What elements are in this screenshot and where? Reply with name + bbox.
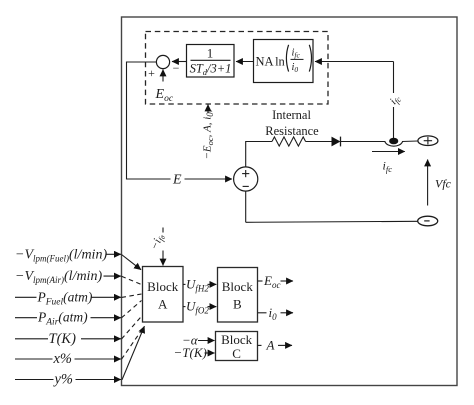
wire: y input left segment [15, 379, 54, 381]
svg-text:STd/3+1: STd/3+1 [190, 62, 232, 78]
wire: T input left segment [15, 338, 48, 340]
fan line: P air to Block A (dashed) [122, 301, 142, 318]
controlled voltage source [234, 167, 258, 191]
wire: P fuel input left segment [15, 296, 37, 298]
svg-text:y%: y% [53, 372, 74, 388]
dashed arrow: -i_fc into Block A top [162, 228, 164, 238]
wire: V air input [104, 275, 121, 277]
arrow: parameters up into dashed subsystem [207, 105, 209, 114]
arrow: -alpha into Block C [198, 340, 215, 342]
fan line: x to Block A (dashed) [122, 328, 144, 360]
diode D1 [332, 137, 341, 147]
node: junction dot on output rail [389, 138, 398, 145]
svg-text:x%: x% [53, 351, 73, 367]
outer system boundary box [122, 17, 458, 386]
svg-text:ifc: ifc [388, 92, 404, 107]
wire: source top to output rail [246, 142, 272, 167]
wire: NA ln block output to transfer block [236, 61, 253, 63]
arrow: U_fH2 into Block B [208, 283, 217, 285]
wire: V fuel input [106, 253, 121, 255]
wire: rail between diode and node [341, 141, 386, 143]
terminal plus [418, 136, 438, 146]
svg-text:1: 1 [207, 46, 214, 61]
wire: node to plus terminal [402, 140, 418, 143]
wire: i_fc feedback vertical lower segment [393, 107, 395, 139]
svg-text:C: C [232, 346, 241, 361]
Block C [216, 332, 258, 362]
svg-text:−: − [173, 61, 180, 75]
wire: E_oc output stub from Block B [258, 280, 263, 282]
svg-text:A: A [266, 337, 275, 352]
svg-text:B: B [233, 297, 242, 312]
arrow: U_fO2 into Block B [208, 306, 217, 308]
summing junction [156, 55, 169, 68]
Block A [143, 267, 184, 323]
svg-text:−ifc: −ifc [149, 231, 168, 252]
svg-text:Vfc: Vfc [435, 177, 452, 191]
wire: transfer block output to summing junction [172, 61, 186, 63]
svg-text:UfH2: UfH2 [186, 276, 209, 293]
svg-text:ifc: ifc [383, 159, 393, 175]
terminal minus [418, 216, 438, 226]
resistor: internal resistance zigzag [272, 137, 306, 146]
svg-text:i0: i0 [269, 305, 278, 322]
svg-text:−Vlpm(Air)(l/min): −Vlpm(Air)(l/min) [15, 269, 102, 285]
wire: source bottom lead [245, 191, 247, 222]
arrow: i_fc current direction [372, 151, 405, 153]
fan line: P fuel to Block A (dashed) [122, 294, 142, 297]
wire: bottom rail to minus terminal [246, 221, 418, 222]
dashed subsystem box [146, 32, 329, 105]
svg-text:A: A [158, 297, 168, 312]
fan line: y to Block A (solid arrow) [122, 326, 144, 380]
wire: P air input left segment [15, 317, 37, 319]
arrow: i_0 output [281, 312, 294, 314]
svg-text:Eoc: Eoc [263, 273, 280, 290]
svg-text:ifc: ifc [292, 48, 301, 60]
wire: i_fc feedback horizontal into NA ln block [315, 61, 394, 63]
arrow: A output [278, 344, 292, 346]
svg-text:+: + [148, 66, 155, 80]
wire: x input left segment [15, 358, 53, 360]
Block B [218, 268, 258, 323]
wire: E feedback from summing junction (left and down) [127, 62, 171, 179]
svg-text:T(K): T(K) [49, 331, 77, 347]
svg-text:−Vlpm(Fuel)(l/min): −Vlpm(Fuel)(l/min) [15, 247, 107, 263]
wire: rail between resistor and diode [306, 141, 332, 143]
fan line: V fuel to Block A (solid arrow) [122, 255, 142, 270]
wire: i_0 output stub from Block B [258, 312, 267, 314]
wire: i_fc feedback vertical upper segment [393, 62, 395, 94]
svg-text:Block: Block [222, 279, 254, 294]
wire: y input right segment [76, 379, 121, 381]
svg-text:PAir(atm): PAir(atm) [37, 310, 88, 328]
wire: U_fO2 from Block A [183, 306, 185, 308]
svg-text:PFuel(atm): PFuel(atm) [37, 289, 93, 307]
transfer function block 1/(ST_d/3+1) [187, 45, 235, 78]
svg-text:i0: i0 [292, 62, 299, 74]
wire: x input right segment [75, 358, 121, 360]
arrow: -T(K) into Block C [205, 352, 215, 354]
wire: E arrow into controlled voltage source [185, 178, 233, 180]
svg-text:Internal: Internal [272, 108, 311, 122]
wire: A output stub from Block C [258, 344, 262, 346]
wire: U_fH2 from Block A [183, 283, 185, 285]
svg-text:−Eoc, A, i0,: −Eoc, A, i0, [202, 109, 216, 159]
wire: T input right segment [81, 338, 121, 340]
svg-text:Block: Block [221, 332, 253, 347]
fan line: T to Block A (dashed) [122, 317, 142, 340]
svg-text:−T(K): −T(K) [174, 345, 207, 360]
svg-text:NAln: NAln [256, 55, 286, 69]
svg-text:Eoc: Eoc [155, 87, 174, 104]
svg-text:E: E [172, 173, 182, 188]
block NA ln(i_fc/i_0) [254, 40, 314, 83]
E_oc input arrow into summing junction [162, 70, 164, 82]
wire: P fuel input right segment [92, 296, 121, 298]
arrow: E_oc output [281, 280, 294, 282]
svg-text:Block: Block [147, 279, 179, 294]
fan line: V air to Block A (dashed) [122, 276, 142, 284]
wire hop under node [385, 142, 403, 147]
wire: P air input right segment [91, 317, 121, 319]
svg-text:Resistance: Resistance [265, 124, 319, 138]
svg-text:UfO2: UfO2 [186, 299, 209, 316]
arrow: Vfc voltage [427, 160, 429, 206]
